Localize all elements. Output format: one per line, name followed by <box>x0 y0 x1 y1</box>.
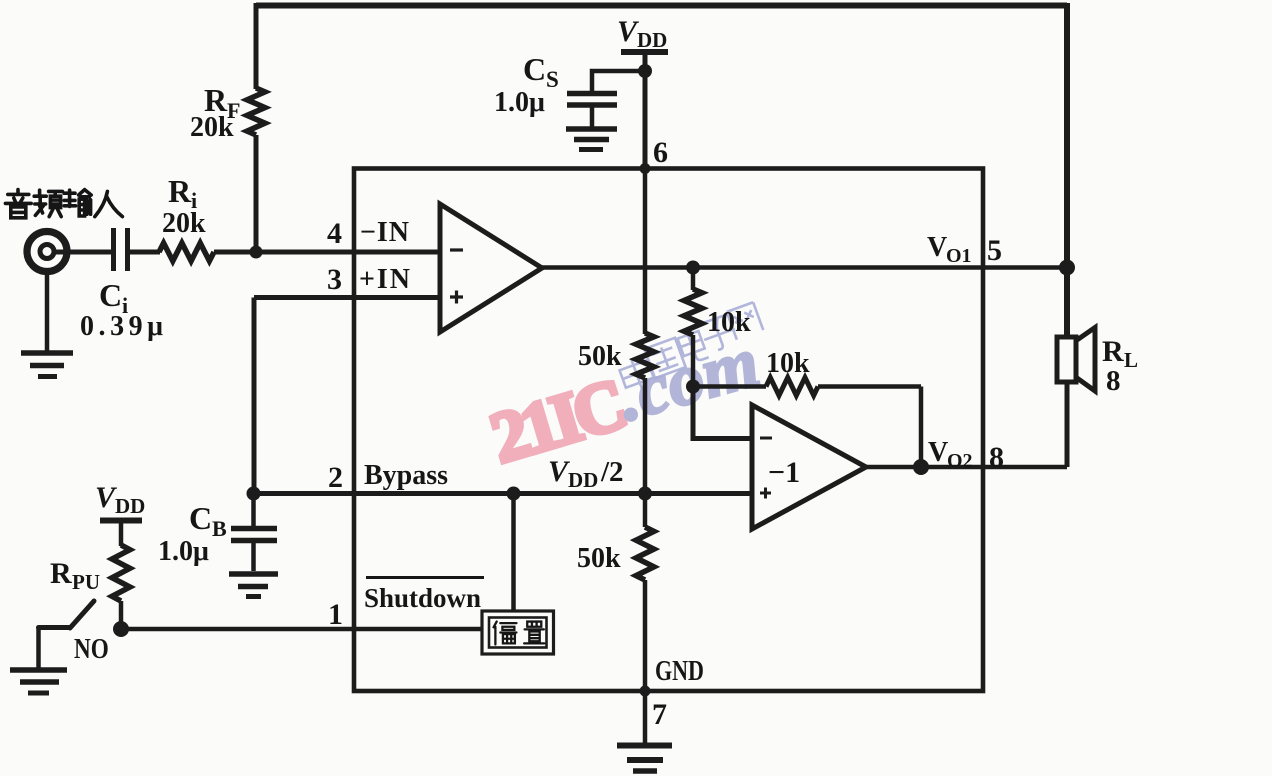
label VDD/2 <box>548 455 624 492</box>
svg-text:S: S <box>546 67 559 92</box>
wire connector to Ci <box>53 250 112 255</box>
ground (CB) <box>229 574 278 597</box>
svg-text:DD: DD <box>115 494 145 518</box>
wire Ri to -IN pin 4 <box>214 250 440 255</box>
bias block 偏置 <box>482 611 554 654</box>
svg-text:R: R <box>168 173 192 209</box>
svg-text:−IN: −IN <box>360 217 409 248</box>
ground (switch) <box>10 628 67 694</box>
op-amp U1B (-1) <box>752 405 866 529</box>
resistor 10k (horizontal feedback) <box>693 384 766 389</box>
ground (CS) <box>566 129 617 150</box>
resistor 10k (vertical) <box>691 268 696 291</box>
svg-text:7: 7 <box>652 698 667 731</box>
switch NO <box>39 601 95 628</box>
svg-text:1.0μ: 1.0μ <box>494 87 545 118</box>
svg-text:3: 3 <box>327 263 342 296</box>
wire speaker bottom drop <box>1065 382 1070 467</box>
svg-text:8: 8 <box>1106 365 1121 397</box>
wire VDD down to pin 6 <box>643 54 648 168</box>
pin 2 label Bypass <box>328 460 448 494</box>
pin 3 label +IN <box>327 263 410 296</box>
capacitor CS 1.0u <box>567 71 645 127</box>
pin 1 label Shutdown <box>328 583 481 631</box>
svg-text:20k: 20k <box>190 112 234 143</box>
svg-text:Bypass: Bypass <box>364 460 448 491</box>
svg-text:Shutdown: Shutdown <box>364 583 481 613</box>
node VDD/2 <box>638 487 652 501</box>
svg-text:0.39μ: 0.39μ <box>80 311 163 342</box>
wire op-amp2 output VO2 <box>866 465 1067 470</box>
wire to inverting input of U1B <box>693 387 752 439</box>
svg-text:C: C <box>99 277 122 313</box>
node RPU / switch <box>113 621 129 637</box>
svg-text:6: 6 <box>653 136 668 169</box>
capacitor CB 1.0u <box>231 494 277 572</box>
node VO1 to outer loop <box>1059 260 1075 276</box>
overline of Shutdown <box>366 576 484 579</box>
svg-text:+IN: +IN <box>359 264 410 295</box>
wire pin 7 to ground <box>643 691 648 744</box>
svg-text:O2: O2 <box>947 450 973 472</box>
node 10k junction <box>686 380 700 394</box>
power VDD (top) <box>617 15 668 52</box>
wire VDD internal down to 50k <box>643 168 648 334</box>
svg-text:R: R <box>1102 335 1124 368</box>
wire pin 1 shutdown <box>121 627 482 632</box>
wire right outer vertical (top of speaker) <box>1064 3 1070 337</box>
node VO2 <box>913 459 929 475</box>
svg-text:B: B <box>212 516 227 541</box>
wire bypass VDD/2 line <box>254 491 753 496</box>
node VDD / CS junction <box>638 64 652 78</box>
svg-text:10k: 10k <box>766 348 810 379</box>
label 音频输入 <box>5 190 122 218</box>
svg-text:2: 2 <box>328 461 343 494</box>
label VO1 pin 5 <box>927 232 1002 267</box>
svg-text:O1: O1 <box>946 245 972 267</box>
svg-text:50k: 50k <box>577 543 621 574</box>
resistor Ri 20k <box>159 243 214 261</box>
svg-text:NO: NO <box>74 633 109 665</box>
node output / 10k <box>686 261 700 275</box>
node pin6 at box edge <box>640 163 651 174</box>
wire top feedback loop <box>256 3 1067 9</box>
pin 4 label -IN <box>327 217 409 250</box>
svg-text:4: 4 <box>327 217 342 250</box>
capacitor Ci 0.39u <box>114 228 128 271</box>
svg-text:1.0μ: 1.0μ <box>158 536 209 567</box>
connector J1 audio input <box>27 232 67 272</box>
resistor RF 20k <box>247 88 265 135</box>
wire pin3 drop to bypass node <box>252 298 257 494</box>
wire 50k to VDD/2 node <box>643 378 648 494</box>
speaker RL <box>1057 328 1095 392</box>
label VO2 pin 8 <box>928 437 1004 474</box>
wire bias drop <box>511 494 516 612</box>
wire +IN pin 3 <box>254 295 440 300</box>
resistor 50k (upper) <box>636 333 654 378</box>
svg-text:L: L <box>1124 348 1138 372</box>
resistor RPU <box>119 521 124 547</box>
svg-text:DD: DD <box>637 28 667 52</box>
node VDD/2 to bias <box>507 487 521 501</box>
wire 50k lower to GND pin 7 <box>643 580 648 691</box>
svg-text:C: C <box>523 51 546 87</box>
wire Ci to Ri <box>129 250 160 255</box>
power VDD (left) <box>95 481 145 521</box>
svg-text:PU: PU <box>72 570 100 594</box>
svg-text:V: V <box>927 232 947 263</box>
wire RF bottom segment <box>254 135 259 252</box>
watermark chinese 中国电子网 <box>617 302 763 395</box>
resistor 50k (lower) <box>643 494 648 528</box>
svg-text:50k: 50k <box>578 341 622 372</box>
svg-text:10k: 10k <box>707 307 751 338</box>
wire op-amp1 output VO1 <box>542 265 1067 270</box>
ground (audio input) <box>21 271 73 377</box>
node bypass CB <box>247 487 261 501</box>
svg-text:V: V <box>928 437 948 468</box>
svg-text:DD: DD <box>568 468 598 492</box>
svg-text:20k: 20k <box>162 208 206 239</box>
op-amp U1A <box>440 204 542 332</box>
svg-text:8: 8 <box>989 441 1004 474</box>
IC package outline U1 <box>354 169 983 692</box>
svg-text:1: 1 <box>328 598 343 631</box>
svg-text:C: C <box>189 500 212 536</box>
svg-text:R: R <box>50 557 72 590</box>
watermark 21IC.com <box>482 321 767 478</box>
ground (pin 7) <box>617 746 672 772</box>
wire RF top segment <box>254 3 259 89</box>
node input junction <box>250 246 263 259</box>
svg-text:GND: GND <box>655 654 704 687</box>
node pin7 at box edge <box>640 686 651 697</box>
svg-text:5: 5 <box>987 234 1002 267</box>
svg-text:/2: /2 <box>600 456 624 488</box>
svg-text:−1: −1 <box>768 456 800 489</box>
wire feedback drop to output <box>919 387 924 468</box>
